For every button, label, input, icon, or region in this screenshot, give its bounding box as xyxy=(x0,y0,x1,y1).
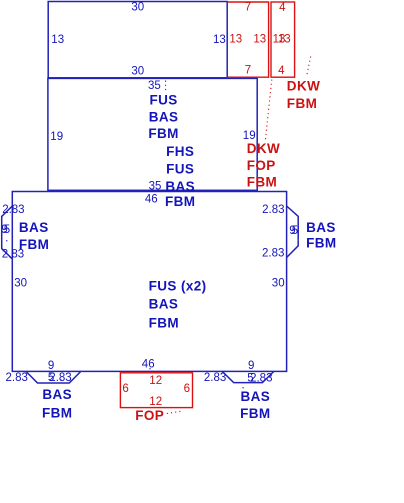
svg-text:4: 4 xyxy=(278,65,285,77)
svg-text:2.83: 2.83 xyxy=(2,204,24,216)
svg-text:FBM: FBM xyxy=(287,96,317,111)
svg-text:2.83: 2.83 xyxy=(204,372,226,384)
svg-text:FUS: FUS xyxy=(149,92,177,107)
svg-text:9: 9 xyxy=(48,360,54,372)
svg-text:35: 35 xyxy=(149,181,162,193)
svg-text:FUS: FUS xyxy=(166,161,194,176)
svg-text:BAS: BAS xyxy=(19,220,49,235)
svg-text:BAS: BAS xyxy=(42,387,72,402)
svg-text:13: 13 xyxy=(51,34,64,46)
svg-text:4: 4 xyxy=(279,2,286,14)
svg-text:2.83: 2.83 xyxy=(49,372,71,384)
svg-text:FBM: FBM xyxy=(247,174,277,189)
svg-text:7: 7 xyxy=(245,2,251,14)
svg-text:2.83: 2.83 xyxy=(250,372,272,384)
svg-text:7: 7 xyxy=(245,65,251,77)
svg-text:FBM: FBM xyxy=(306,236,336,251)
stray leader dots xyxy=(6,240,7,241)
leader dotted to DKW/FBM top right xyxy=(307,57,311,77)
blue dotted mark near 35 xyxy=(165,81,167,91)
svg-text:FBM: FBM xyxy=(42,406,72,421)
svg-text:6: 6 xyxy=(122,383,128,395)
svg-text:12: 12 xyxy=(149,375,162,387)
svg-text:FHS: FHS xyxy=(166,144,194,159)
svg-text:BAS: BAS xyxy=(306,220,336,235)
svg-text:FBM: FBM xyxy=(149,316,179,331)
svg-text:12: 12 xyxy=(149,396,162,408)
room B2 (red 4x13) xyxy=(271,2,295,77)
room A (top rectangle 30x13) xyxy=(48,2,227,78)
svg-text:5: 5 xyxy=(292,225,298,237)
leader dotted to DKW/FOP/FBM xyxy=(265,80,272,142)
room B1 (red 7x13) xyxy=(227,2,268,77)
room C (middle rectangle 35x19) xyxy=(48,78,257,190)
svg-text:30: 30 xyxy=(131,66,144,78)
svg-text:FOP: FOP xyxy=(135,408,164,423)
svg-text:46: 46 xyxy=(142,358,155,370)
right bay bump xyxy=(287,206,299,258)
svg-text:13: 13 xyxy=(278,34,291,46)
leader dotted right of FOP xyxy=(167,411,183,414)
bottom-right bay bump xyxy=(222,371,274,382)
svg-text:13: 13 xyxy=(253,34,266,46)
bottom-left bay bump xyxy=(26,371,81,383)
svg-text:FUS (x2): FUS (x2) xyxy=(149,279,207,294)
svg-text:9: 9 xyxy=(248,360,254,372)
svg-text:2.83: 2.83 xyxy=(262,247,284,259)
svg-text:30: 30 xyxy=(272,277,285,289)
svg-text:19: 19 xyxy=(50,131,63,143)
svg-text:13: 13 xyxy=(229,34,242,46)
svg-text:35: 35 xyxy=(148,80,161,92)
svg-text:BAS: BAS xyxy=(240,389,270,404)
svg-text:30: 30 xyxy=(131,2,144,14)
svg-text:BAS: BAS xyxy=(165,179,195,194)
svg-text:5: 5 xyxy=(4,224,10,236)
svg-text:FOP: FOP xyxy=(247,158,276,173)
left bay bump xyxy=(2,206,13,259)
svg-text:FBM: FBM xyxy=(240,406,270,421)
FOP opening (red rect 12x6) xyxy=(120,373,192,408)
svg-text:30: 30 xyxy=(14,277,27,289)
svg-text:DKW: DKW xyxy=(247,141,280,156)
svg-text:FBM: FBM xyxy=(165,194,195,209)
svg-text:BAS: BAS xyxy=(149,110,179,125)
svg-text:DKW: DKW xyxy=(287,78,320,93)
svg-text:46: 46 xyxy=(145,194,158,206)
svg-text:2.83: 2.83 xyxy=(6,372,28,384)
svg-text:6: 6 xyxy=(184,383,190,395)
svg-text:FBM: FBM xyxy=(148,126,178,141)
svg-text:13: 13 xyxy=(213,34,226,46)
svg-text:2.83: 2.83 xyxy=(262,204,284,216)
svg-text:FBM: FBM xyxy=(19,237,49,252)
svg-text:BAS: BAS xyxy=(149,296,179,311)
room E (big rectangle 46x30) xyxy=(12,192,286,372)
